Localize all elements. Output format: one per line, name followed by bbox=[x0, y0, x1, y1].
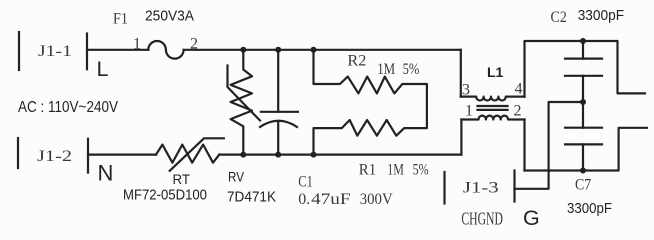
core bbox=[478, 105, 508, 107]
svg-text:3: 3 bbox=[462, 81, 470, 98]
svg-text:R2: R2 bbox=[347, 52, 366, 69]
svg-text:G: G bbox=[523, 206, 540, 230]
wire J1-2 pin to RT bbox=[88, 154, 156, 156]
svg-text:250V3A: 250V3A bbox=[145, 7, 194, 24]
wire N rail (RT to L1 pin1 drop) bbox=[219, 154, 461, 156]
junction N rail / RV bbox=[240, 152, 246, 158]
junction L rail / RV bbox=[240, 47, 246, 53]
fuse F1 bbox=[113, 7, 194, 58]
svg-text:2: 2 bbox=[514, 103, 522, 120]
wire L1 pin1 down to N rail bbox=[460, 120, 462, 155]
junction N rail / C1 bbox=[275, 152, 281, 158]
svg-text:L1: L1 bbox=[487, 64, 504, 80]
wire L1 pin4 up to top-right rail bbox=[525, 41, 646, 97]
top winding bbox=[461, 97, 525, 101]
bottom rail to output stub bbox=[525, 128, 648, 171]
pin 3 drop from L rail bbox=[460, 50, 462, 97]
svg-text:J1-1: J1-1 bbox=[38, 43, 72, 60]
thermistor RT bbox=[123, 138, 224, 203]
svg-text:MF72-05D100: MF72-05D100 bbox=[123, 186, 207, 203]
varistor RV bbox=[227, 50, 276, 206]
svg-text:C2: C2 bbox=[551, 9, 567, 26]
svg-text:3300pF: 3300pF bbox=[567, 200, 612, 217]
svg-text:CHGND: CHGND bbox=[461, 208, 503, 228]
svg-text:N: N bbox=[98, 161, 114, 186]
resistors R2 and R1 series hairpin bbox=[314, 50, 429, 179]
junction Y-cap midpoint node bbox=[580, 99, 586, 105]
svg-text:J1-3: J1-3 bbox=[463, 180, 499, 197]
junction L rail / R2 bbox=[311, 47, 317, 53]
connector J1-3 bbox=[445, 171, 515, 229]
svg-text:L: L bbox=[97, 57, 109, 81]
common mode choke L1 bbox=[461, 50, 525, 120]
svg-text:J1-2: J1-2 bbox=[37, 148, 72, 165]
capacitor C1 bbox=[260, 50, 393, 208]
wire J1-1 pin to fuse bbox=[87, 49, 148, 51]
wire L rail (fuse to L1 pin3 drop) bbox=[184, 49, 461, 51]
svg-text:RV: RV bbox=[228, 169, 245, 185]
connector J1-1 bbox=[19, 32, 87, 70]
wire L1 pin2 down to bottom rail bbox=[523, 120, 525, 171]
junction bottom rail / C7 bbox=[580, 168, 586, 174]
svg-text:4: 4 bbox=[515, 81, 523, 98]
svg-text:C7: C7 bbox=[575, 177, 591, 194]
svg-text:R11M5%: R11M5% bbox=[359, 162, 429, 179]
svg-text:1: 1 bbox=[133, 35, 141, 52]
junction top rail / C2 bbox=[580, 38, 586, 44]
capacitor C7 bbox=[565, 102, 612, 217]
svg-text:3300pF: 3300pF bbox=[578, 7, 624, 24]
svg-text:0.47uF300V: 0.47uF300V bbox=[298, 191, 393, 208]
svg-text:C1: C1 bbox=[298, 173, 313, 190]
svg-text:AC : 110V~240V: AC : 110V~240V bbox=[18, 99, 119, 116]
wire Y-cap midpoint to J1-3 bbox=[515, 102, 584, 189]
svg-text:7D471K: 7D471K bbox=[227, 189, 276, 206]
bottom winding bbox=[461, 116, 524, 120]
connector J1-2 bbox=[18, 138, 88, 173]
junction L rail / C1 bbox=[275, 47, 281, 53]
capacitor C2 bbox=[551, 7, 625, 102]
svg-text:1: 1 bbox=[465, 103, 473, 120]
svg-text:RT: RT bbox=[173, 171, 191, 187]
junction N rail / R1 bbox=[311, 152, 317, 158]
svg-text:F1: F1 bbox=[113, 11, 128, 28]
